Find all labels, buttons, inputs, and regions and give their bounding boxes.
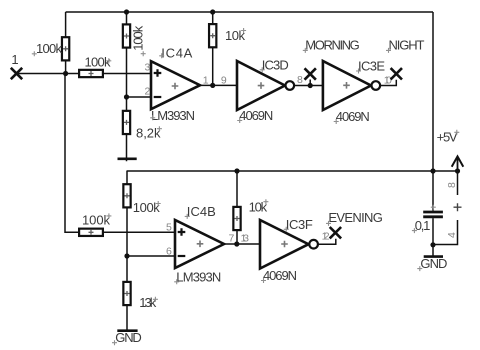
resistor R6 100k (mid-left vertical) bbox=[123, 171, 160, 256]
svg-text:4069N: 4069N bbox=[239, 108, 273, 123]
wire +5V rail bbox=[127, 170, 458, 172]
wire right rail top bbox=[432, 12, 434, 171]
resistor R2 100k (top-middle vertical) bbox=[123, 12, 146, 161]
wire left vertical bbox=[65, 74, 78, 233]
resistor R9 10k (bottom) bbox=[233, 171, 268, 244]
svg-text:IC3D: IC3D bbox=[262, 57, 289, 72]
svg-text:9: 9 bbox=[221, 74, 227, 86]
inverter IC3E 4069N bbox=[323, 59, 385, 125]
svg-text:4: 4 bbox=[446, 232, 458, 238]
resistor R5 8,2k bbox=[123, 111, 162, 141]
svg-text:0,1: 0,1 bbox=[415, 218, 431, 233]
node MORNING bbox=[303, 38, 360, 86]
svg-text:3: 3 bbox=[145, 62, 151, 74]
svg-text:MORNING: MORNING bbox=[305, 38, 360, 53]
svg-text:6: 6 bbox=[166, 245, 172, 257]
supply +5V arrow bbox=[437, 130, 464, 174]
wire IC4A output bbox=[200, 74, 237, 88]
node junction pin2 bbox=[124, 94, 129, 99]
ground (bottom right) bbox=[417, 245, 447, 271]
svg-text:1: 1 bbox=[203, 74, 209, 86]
svg-text:100k: 100k bbox=[130, 25, 145, 51]
node junction rail/right rail bbox=[430, 168, 435, 173]
ground bar (below 8,2k) bbox=[118, 158, 137, 161]
svg-text:EVENING: EVENING bbox=[328, 210, 383, 225]
svg-text:4069N: 4069N bbox=[263, 268, 297, 283]
svg-text:NIGHT: NIGHT bbox=[389, 38, 425, 53]
svg-text:GND: GND bbox=[420, 256, 447, 271]
svg-text:7: 7 bbox=[229, 232, 235, 244]
svg-text:100k: 100k bbox=[36, 41, 63, 56]
pin 8 supply stub bbox=[446, 171, 458, 195]
svg-text:IC4A: IC4A bbox=[161, 45, 192, 60]
svg-text:12: 12 bbox=[322, 231, 330, 243]
svg-text:4069N: 4069N bbox=[336, 109, 370, 124]
svg-text:10: 10 bbox=[384, 74, 392, 86]
capacitor C1 0,1 bbox=[412, 171, 443, 247]
svg-text:IC3E: IC3E bbox=[358, 59, 385, 74]
wire IC3F out / node EVENING bbox=[318, 210, 383, 244]
svg-text:100k: 100k bbox=[133, 200, 161, 215]
svg-text:5: 5 bbox=[166, 221, 172, 233]
inverter IC3F 4069N bbox=[260, 217, 318, 283]
svg-text:13: 13 bbox=[241, 232, 250, 244]
op-amp IC4A LM393N bbox=[145, 45, 201, 123]
wire IC3E out / node NIGHT bbox=[380, 38, 424, 87]
resistor R8 13k bbox=[123, 256, 158, 331]
svg-text:LM393N: LM393N bbox=[151, 108, 195, 123]
svg-text:1: 1 bbox=[11, 52, 18, 67]
svg-text:100k: 100k bbox=[85, 55, 112, 70]
op-amp IC4B LM393N bbox=[166, 204, 224, 284]
wire IC4B output bbox=[224, 232, 260, 246]
svg-text:100k: 100k bbox=[82, 212, 111, 227]
wire top rail bbox=[66, 11, 433, 13]
inverter IC3D 4069N bbox=[237, 57, 294, 123]
resistor R7 100k (bottom horizontal) bbox=[65, 212, 175, 236]
resistor R1 100k (top-left vertical) bbox=[32, 12, 69, 74]
svg-text:LM393N: LM393N bbox=[176, 269, 221, 284]
node junction top wire / R3 bbox=[210, 9, 215, 14]
svg-text:2: 2 bbox=[145, 86, 151, 98]
resistor R4 100k (top horizontal) bbox=[66, 55, 151, 78]
pin 4 supply stub bbox=[433, 220, 458, 245]
ground (below 13k) bbox=[112, 330, 142, 345]
svg-text:8: 8 bbox=[446, 182, 458, 188]
node junction pin6 bbox=[124, 253, 129, 258]
node 1 bbox=[11, 52, 68, 79]
svg-text:13k: 13k bbox=[139, 295, 157, 310]
capacitor plus mark bbox=[454, 203, 462, 211]
svg-text:IC4B: IC4B bbox=[187, 204, 216, 219]
node junction top wire / R2 bbox=[124, 9, 129, 14]
resistor R3 10k (top) bbox=[209, 12, 246, 85]
wire IC3D out bbox=[294, 74, 323, 88]
wire pin 2 bbox=[127, 96, 152, 98]
svg-text:IC3F: IC3F bbox=[286, 217, 313, 232]
node junction rail/R10k bbox=[234, 168, 239, 173]
svg-text:8,2k: 8,2k bbox=[136, 126, 161, 141]
svg-text:8: 8 bbox=[297, 74, 303, 86]
wire pin 6 bbox=[127, 255, 175, 257]
svg-text:GND: GND bbox=[115, 330, 142, 345]
